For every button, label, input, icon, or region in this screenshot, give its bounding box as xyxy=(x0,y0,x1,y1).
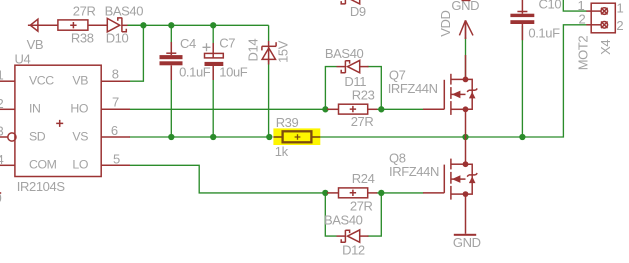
svg-text:VS: VS xyxy=(72,129,88,143)
node junction VS/C4 xyxy=(168,134,174,140)
svg-text:0: 0 xyxy=(0,191,2,206)
node junction VB/D10 xyxy=(140,22,146,28)
clipped pin stub at left edge xyxy=(0,192,1,194)
svg-text:C10: C10 xyxy=(539,0,562,11)
wire HO net xyxy=(130,108,328,110)
svg-text:0.1uF: 0.1uF xyxy=(528,26,560,41)
svg-text:Q8: Q8 xyxy=(389,150,406,165)
resistor R23 xyxy=(327,104,377,114)
wire VS net xyxy=(130,136,271,138)
node junction VB/C7 xyxy=(210,22,216,28)
wire R23 right to gate Q7 xyxy=(377,108,424,110)
svg-text:D14: D14 xyxy=(245,39,260,62)
svg-text:LO: LO xyxy=(72,158,88,172)
svg-text:COM: COM xyxy=(29,158,57,172)
resistor R39 highlighted xyxy=(273,131,320,142)
svg-text:2: 2 xyxy=(579,12,586,27)
svg-text:D9: D9 xyxy=(350,4,366,19)
pin 2 IN stub xyxy=(0,108,15,110)
supply VDD arrow xyxy=(459,20,473,39)
pin 7 HO stub xyxy=(101,108,130,110)
transistor Q8 IRFZ44N xyxy=(423,137,477,234)
svg-text:8: 8 xyxy=(112,67,119,82)
svg-text:BAS40: BAS40 xyxy=(324,212,363,227)
diode D9 clipped at top xyxy=(341,0,360,4)
wire MOT2 pin1 xyxy=(563,0,586,11)
wire VB top net xyxy=(128,24,269,26)
wire LO net xyxy=(130,165,328,193)
svg-text:6: 6 xyxy=(111,123,118,138)
wire R38 to D10 xyxy=(88,24,107,26)
svg-text:IRFZ44N: IRFZ44N xyxy=(388,81,438,96)
wire C10 to VS xyxy=(521,26,523,137)
node junction LO/R24 left xyxy=(322,190,328,196)
pin 5 LO stub xyxy=(101,164,130,166)
node junction VS/C10 xyxy=(519,134,525,140)
wire D10 cathode to junction xyxy=(128,24,144,26)
IC U4 IR2104S box xyxy=(15,65,101,176)
svg-text:5: 5 xyxy=(113,152,120,167)
ground symbol bottom xyxy=(454,234,476,236)
svg-text:27R: 27R xyxy=(73,4,96,19)
svg-text:C7: C7 xyxy=(219,36,235,51)
svg-text:SD: SD xyxy=(29,129,46,143)
svg-text:Q7: Q7 xyxy=(389,67,406,82)
svg-text:BAS40: BAS40 xyxy=(325,46,364,61)
svg-text:R23: R23 xyxy=(352,87,375,102)
wire D12 left leg xyxy=(325,193,336,236)
pin 4 COM stub xyxy=(0,164,15,166)
node junction VB/C4 xyxy=(168,22,174,28)
wire R24 right to gate Q8 xyxy=(377,192,424,194)
node junction VS/D14 xyxy=(266,134,272,140)
svg-text:3: 3 xyxy=(0,124,4,139)
pin 8 VB stub xyxy=(101,80,130,82)
diode D10 BAS40 xyxy=(107,18,128,32)
zener diode D14 xyxy=(262,41,276,65)
svg-text:U4: U4 xyxy=(15,51,31,66)
supply VB arrow xyxy=(28,19,58,31)
svg-text:R39: R39 xyxy=(276,115,299,130)
svg-text:15V: 15V xyxy=(276,40,291,63)
node junction R24 right xyxy=(378,190,384,196)
pin 1 VCC stub xyxy=(0,80,15,82)
svg-text:MOT2: MOT2 xyxy=(575,36,590,71)
node junction VS/C7 xyxy=(210,134,216,140)
svg-text:D12: D12 xyxy=(342,243,365,258)
svg-text:27R: 27R xyxy=(351,114,374,129)
svg-text:GND: GND xyxy=(451,0,479,13)
svg-text:D10: D10 xyxy=(106,31,129,46)
wire VDD to Q7 drain xyxy=(465,37,467,79)
svg-text:BAS40: BAS40 xyxy=(105,4,144,19)
node junction HO/R23 left xyxy=(322,106,328,112)
wire VB net to pin 8 xyxy=(130,25,144,81)
pin 3 inversion bubble xyxy=(8,133,16,141)
connector X4 MOT2 xyxy=(586,3,615,33)
IC origin cross xyxy=(56,120,63,127)
capacitor C10 xyxy=(510,0,534,40)
wire VS net right xyxy=(320,25,587,137)
wire C4 to VS xyxy=(170,68,172,137)
pin 6 VS stub xyxy=(101,136,130,138)
svg-text:7: 7 xyxy=(112,95,119,110)
node junction R23 right xyxy=(378,106,384,112)
diode D12 BAS40 mirrored xyxy=(337,230,369,243)
svg-text:R38: R38 xyxy=(71,31,94,46)
svg-text:HO: HO xyxy=(70,102,88,116)
capacitor C7 polarized xyxy=(205,43,224,80)
svg-text:1: 1 xyxy=(0,68,4,83)
pin 3 SD stub xyxy=(0,136,8,138)
svg-text:IR2104S: IR2104S xyxy=(17,179,66,194)
wire D14 column top xyxy=(268,25,270,41)
svg-text:2: 2 xyxy=(616,18,623,33)
svg-text:0.1uF: 0.1uF xyxy=(179,65,211,80)
svg-text:IRFZ44N: IRFZ44N xyxy=(389,164,439,179)
svg-text:VDD: VDD xyxy=(438,11,453,37)
svg-text:2: 2 xyxy=(0,96,4,111)
diode D11 BAS40 mirrored xyxy=(337,60,369,73)
svg-text:R24: R24 xyxy=(352,171,375,186)
svg-text:X4: X4 xyxy=(598,40,613,55)
wire D11 right leg xyxy=(368,67,382,110)
svg-text:VB: VB xyxy=(72,73,88,87)
wire C7 column xyxy=(212,25,214,50)
wire D12 right leg xyxy=(368,193,382,236)
svg-text:10uF: 10uF xyxy=(219,65,247,80)
wire D14 to VS xyxy=(268,62,270,137)
resistor R38 xyxy=(58,20,88,30)
wire C7 to VS xyxy=(212,69,214,137)
svg-text:IN: IN xyxy=(29,102,41,116)
resistor R24 xyxy=(327,188,377,198)
node junction VS/Q7-Q8 xyxy=(462,134,468,140)
label plus C7 xyxy=(203,43,211,51)
svg-text:VCC: VCC xyxy=(29,73,54,87)
svg-text:VB: VB xyxy=(27,37,44,52)
svg-text:1k: 1k xyxy=(275,144,289,159)
svg-text:C4: C4 xyxy=(180,36,196,51)
svg-text:GND: GND xyxy=(453,235,481,250)
ground symbol top clipped xyxy=(462,0,471,1)
wire D11 left leg xyxy=(325,67,336,110)
capacitor C4 xyxy=(160,42,183,80)
highlight R39 xyxy=(273,128,320,145)
svg-text:4: 4 xyxy=(0,152,4,167)
transistor Q7 IRFZ44N xyxy=(423,55,477,137)
svg-text:1: 1 xyxy=(617,1,624,16)
wire C4 column xyxy=(170,25,172,50)
